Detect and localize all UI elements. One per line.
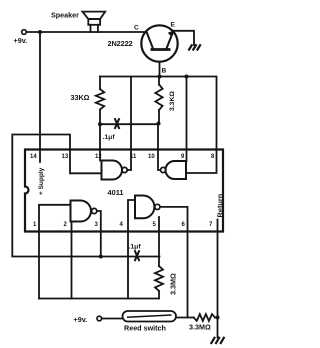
svg-text:.1μf: .1μf [129,244,142,251]
svg-text:Speaker: Speaker [51,11,79,20]
svg-text:+9v.: +9v. [74,315,88,324]
svg-text:E: E [171,22,176,29]
svg-text:4011: 4011 [108,188,124,197]
svg-text:3.3MΩ: 3.3MΩ [189,323,211,332]
svg-text:3.3MΩ: 3.3MΩ [169,273,178,295]
svg-text:B: B [162,68,167,75]
svg-text:3.3KΩ: 3.3KΩ [169,91,176,111]
svg-text:Return: Return [216,193,225,217]
svg-text:Reed switch: Reed switch [124,324,166,333]
svg-text:33KΩ: 33KΩ [71,93,90,102]
svg-text:+ Supply: + Supply [38,167,45,195]
svg-text:.1μf: .1μf [103,134,116,141]
svg-text:+9v.: +9v. [14,36,28,45]
svg-text:12: 12 [95,154,102,160]
svg-text:13: 13 [62,154,69,160]
svg-text:2N2222: 2N2222 [108,39,133,48]
svg-text:C: C [134,25,139,32]
svg-text:14: 14 [30,154,37,160]
svg-text:10: 10 [148,154,155,160]
svg-text:11: 11 [130,154,137,160]
